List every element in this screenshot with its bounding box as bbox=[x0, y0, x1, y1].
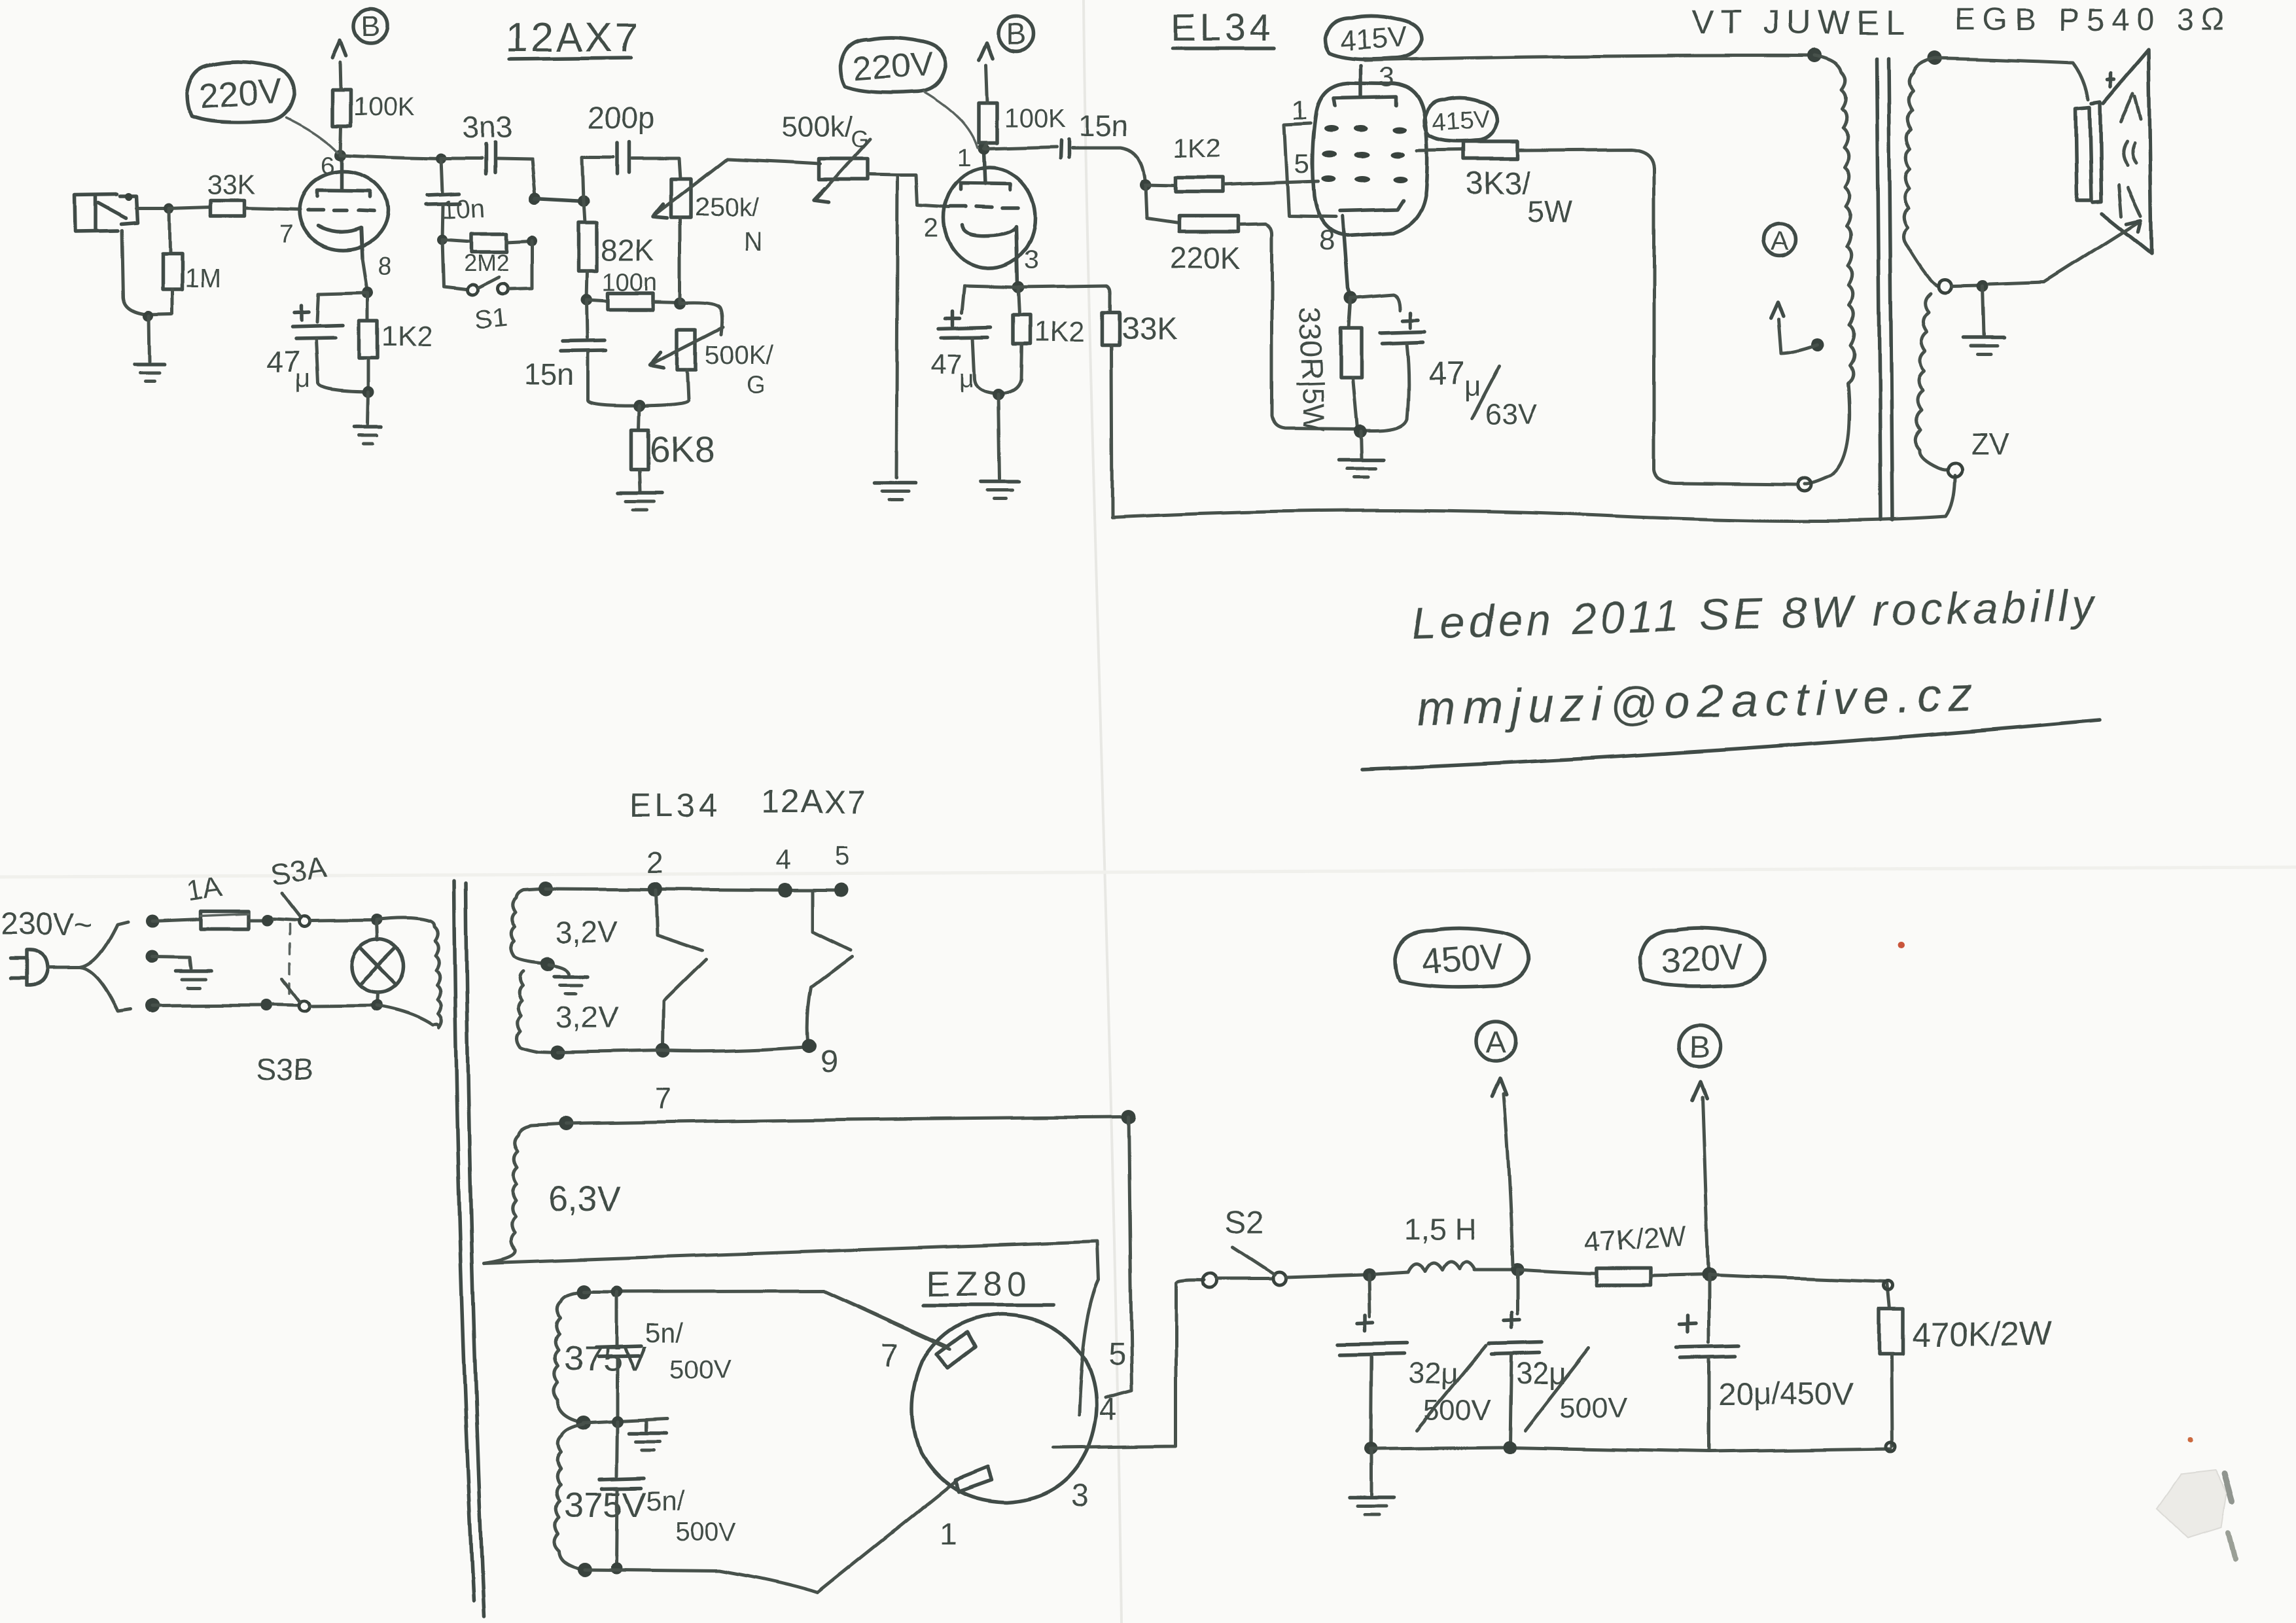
svg-text:5n/: 5n/ bbox=[646, 1486, 685, 1516]
svg-text:500V: 500V bbox=[675, 1518, 737, 1546]
capacitor 47u/63V (EL34 cathode) bbox=[1351, 294, 1537, 431]
EL34 heater filament bbox=[656, 890, 707, 1047]
svg-text:S1: S1 bbox=[474, 304, 508, 336]
voltage balloon 220V (stage 1) bbox=[187, 62, 338, 152]
heater bus top bbox=[546, 889, 841, 890]
capacitor 5n/500V lower bbox=[599, 1421, 737, 1574]
resistor 33K (feedback) bbox=[1018, 286, 1177, 517]
svg-text:500V: 500V bbox=[1560, 1392, 1627, 1424]
switch S2 bbox=[1203, 1205, 1286, 1288]
svg-text:375V: 375V bbox=[564, 1486, 646, 1525]
wire node6 to 3n3 bbox=[340, 153, 446, 164]
winding 375V lower bbox=[554, 1424, 646, 1569]
title EL34 bbox=[1171, 7, 1275, 49]
wire jack sleeve down bbox=[122, 230, 172, 321]
node 6 (plate V1a) bbox=[334, 149, 346, 161]
12AX7 pin 9 node bbox=[802, 1039, 817, 1053]
switch S3B bbox=[256, 979, 377, 1086]
choke 1.5H bbox=[1375, 1212, 1524, 1276]
svg-text:2: 2 bbox=[924, 214, 938, 243]
resistor 3K3/5W (screen) bbox=[1417, 142, 1654, 229]
svg-text:3,2V: 3,2V bbox=[555, 915, 617, 949]
svg-text:200p: 200p bbox=[588, 101, 654, 135]
svg-text:330R|5W: 330R|5W bbox=[1293, 307, 1332, 433]
svg-text:EZ80: EZ80 bbox=[927, 1264, 1032, 1304]
dashed link S3A-S3B bbox=[289, 924, 291, 1003]
OT core bbox=[1877, 58, 1881, 520]
mains terminals bbox=[145, 914, 158, 927]
switch S1 bbox=[442, 240, 532, 336]
heater bus bottom bbox=[557, 1046, 809, 1052]
PT core bbox=[454, 881, 474, 1601]
wire 250K wiper to volume pot bbox=[728, 159, 820, 164]
svg-text:6,3V: 6,3V bbox=[548, 1179, 621, 1219]
svg-text:μ: μ bbox=[296, 365, 311, 393]
EZ80 cathode pin 3 bbox=[1053, 1280, 1204, 1448]
mains plug bbox=[10, 950, 47, 985]
EL34 pin 2 node bbox=[648, 882, 662, 897]
resistor 1M (input load) bbox=[162, 208, 221, 313]
svg-text:2: 2 bbox=[646, 846, 663, 880]
node (3n3 right / 200p left) bbox=[529, 192, 541, 204]
svg-text:450V: 450V bbox=[1420, 936, 1505, 982]
ground (speaker return) bbox=[1964, 286, 2004, 355]
OT secondary lower winding bbox=[1915, 293, 1949, 469]
svg-text:32μ: 32μ bbox=[1408, 1356, 1459, 1390]
capacitor 10n bbox=[425, 158, 486, 245]
svg-text:3n3: 3n3 bbox=[462, 110, 512, 144]
capacitor 100n (box style) bbox=[586, 269, 686, 310]
svg-text:1K2: 1K2 bbox=[381, 320, 433, 352]
resistor 1K2 (V1a cathode) bbox=[359, 293, 433, 398]
svg-text:B: B bbox=[1006, 17, 1027, 51]
ground (V1b cathode) bbox=[981, 395, 1019, 499]
svg-text:320V: 320V bbox=[1660, 936, 1745, 982]
wire screen down to OT bottom bbox=[1654, 169, 1798, 484]
wire to V1b grid bbox=[898, 175, 949, 207]
arrow A (PSU) bbox=[1492, 1079, 1506, 1097]
svg-text:12AX7: 12AX7 bbox=[762, 783, 866, 820]
svg-text:415V: 415V bbox=[1338, 20, 1408, 57]
svg-text:S2: S2 bbox=[1225, 1205, 1263, 1240]
node label A circle (OT) bbox=[1763, 223, 1796, 256]
EL34 cathode node bbox=[1343, 216, 1357, 304]
svg-text:1: 1 bbox=[957, 145, 971, 172]
12AX7 heater filament bbox=[807, 891, 852, 1042]
winding 375V upper bbox=[554, 1292, 646, 1423]
svg-text:7: 7 bbox=[654, 1081, 671, 1115]
ground (V1a cathode) bbox=[354, 392, 381, 444]
svg-text:10n: 10n bbox=[441, 194, 486, 224]
capacitor 5n/500V upper bbox=[596, 1292, 732, 1420]
supply arrow B (stage 1) bbox=[332, 41, 346, 58]
OT primary terminal top bbox=[1807, 48, 1822, 63]
svg-text:47K/2W: 47K/2W bbox=[1583, 1221, 1687, 1258]
resistor 330R/5W bbox=[1293, 298, 1362, 433]
svg-text:4: 4 bbox=[776, 844, 791, 875]
ground (filter) bbox=[1349, 1442, 1394, 1514]
svg-text:3,2V: 3,2V bbox=[556, 1000, 618, 1034]
svg-text:B: B bbox=[1689, 1031, 1710, 1065]
fuse 1A bbox=[152, 870, 262, 929]
svg-text:μ: μ bbox=[1464, 371, 1481, 403]
torn paper + staples bbox=[2157, 1470, 2235, 1559]
arrow A (OT tap) bbox=[1771, 302, 1783, 318]
note underline bbox=[1362, 720, 2099, 770]
svg-text:ZV: ZV bbox=[1971, 427, 2009, 461]
svg-text:220V: 220V bbox=[198, 71, 283, 116]
svg-text:5W: 5W bbox=[1527, 195, 1572, 229]
svg-text:100K: 100K bbox=[353, 92, 415, 121]
svg-text:mmjuzi@o2active.cz: mmjuzi@o2active.cz bbox=[1416, 669, 1979, 736]
pin1-cathode strap bbox=[1284, 123, 1336, 217]
node label B circle (stage 2) bbox=[998, 16, 1034, 52]
pilot lamp bbox=[351, 914, 404, 1011]
svg-text:500K/: 500K/ bbox=[705, 341, 773, 370]
long wire volume pot to ground bbox=[896, 175, 898, 478]
OT secondary tap node bbox=[1938, 279, 1951, 293]
svg-text:N: N bbox=[743, 227, 762, 256]
svg-text:EL34: EL34 bbox=[629, 787, 722, 824]
EZ80 pin 4 lead bbox=[1106, 1117, 1132, 1398]
node label A circle (PSU) bbox=[1476, 1022, 1515, 1061]
resistor 33K (grid stopper) bbox=[169, 169, 300, 216]
arrow secondary to speaker bbox=[2045, 223, 2138, 282]
capacitor 15n (coupling) bbox=[983, 109, 1152, 190]
wire 375V bottom to EZ80 pin1 bbox=[585, 1478, 961, 1593]
resistor 220K (grid leak) bbox=[1146, 185, 1354, 429]
svg-text:47: 47 bbox=[1428, 355, 1465, 392]
svg-text:1K2: 1K2 bbox=[1034, 316, 1085, 348]
red fleck marks bbox=[1898, 942, 1905, 948]
svg-text:VT JUWEL: VT JUWEL bbox=[1691, 4, 1911, 42]
svg-text:2M2: 2M2 bbox=[463, 249, 509, 276]
svg-text:100K: 100K bbox=[1004, 104, 1066, 133]
svg-text:220V: 220V bbox=[853, 45, 935, 88]
svg-text:5n/: 5n/ bbox=[645, 1317, 684, 1347]
wire jack to grid node bbox=[136, 203, 175, 213]
supply arrow B (stage 2) bbox=[979, 43, 993, 60]
svg-text:47: 47 bbox=[930, 349, 963, 381]
resistor 1K2 (V1b cathode) bbox=[993, 287, 1085, 401]
EL34 pin 7 node bbox=[656, 1043, 671, 1058]
resistor 2M2 bbox=[442, 234, 537, 276]
feedback wire to ZV bbox=[1112, 475, 1955, 521]
6.3V bottom wire to EZ80 pin5 bbox=[484, 1241, 1099, 1280]
OT secondary terminal top bbox=[1928, 51, 1942, 65]
node pin1 (plate V1b) bbox=[978, 143, 989, 154]
tube V2 EL34 bbox=[1292, 62, 1428, 257]
ground (heater CT) bbox=[548, 965, 588, 993]
PT primary winding bbox=[431, 921, 442, 1027]
EL34 cathode bottom node + ground bbox=[1339, 425, 1383, 477]
resistor 470K/2W bbox=[1709, 1275, 2052, 1452]
svg-text:15n: 15n bbox=[523, 357, 574, 391]
svg-text:1A: 1A bbox=[185, 870, 225, 907]
svg-text:1K2: 1K2 bbox=[1174, 134, 1220, 163]
svg-text:4: 4 bbox=[1099, 1393, 1117, 1427]
OT primary tap to A bbox=[1811, 338, 1824, 351]
potentiometer 500K/G (tone) bbox=[650, 327, 773, 399]
svg-text:G: G bbox=[746, 371, 766, 399]
svg-text:3: 3 bbox=[1072, 1478, 1089, 1512]
svg-text:EGB P540 3Ω: EGB P540 3Ω bbox=[1955, 3, 2233, 37]
svg-text:S3B: S3B bbox=[256, 1052, 313, 1086]
wire mains lower to S3B bbox=[153, 1005, 262, 1006]
switch S3A bbox=[261, 849, 377, 927]
svg-text:1M: 1M bbox=[185, 264, 221, 293]
svg-text:20μ/450V: 20μ/450V bbox=[1718, 1377, 1853, 1412]
svg-text:3K3/: 3K3/ bbox=[1466, 166, 1530, 201]
svg-text:82K: 82K bbox=[601, 233, 654, 267]
svg-text:B: B bbox=[361, 10, 380, 43]
svg-text:3: 3 bbox=[1379, 62, 1394, 92]
svg-text:100n: 100n bbox=[602, 269, 658, 296]
PT primary wires bbox=[377, 918, 433, 1025]
svg-text:7: 7 bbox=[881, 1339, 898, 1374]
svg-text:7: 7 bbox=[279, 221, 293, 248]
wire plate to OT primary bbox=[1365, 56, 1814, 60]
svg-text:1: 1 bbox=[940, 1517, 957, 1552]
svg-text:63V: 63V bbox=[1485, 399, 1537, 431]
resistor 82K bbox=[578, 201, 654, 306]
svg-text:EL34: EL34 bbox=[1171, 7, 1275, 49]
svg-text:415V: 415V bbox=[1431, 106, 1491, 137]
svg-text:5: 5 bbox=[1108, 1338, 1126, 1372]
svg-text:3: 3 bbox=[1024, 245, 1038, 274]
OT primary terminal bottom bbox=[1798, 478, 1811, 491]
svg-text:33K: 33K bbox=[1122, 312, 1177, 346]
arrow B (PSU) bbox=[1692, 1082, 1706, 1101]
6.3V top wire to EZ80 pin4 bbox=[567, 1117, 1127, 1124]
svg-text:12AX7: 12AX7 bbox=[505, 15, 640, 60]
voltage balloon 220V (stage 2) bbox=[841, 37, 978, 148]
svg-text:1: 1 bbox=[1292, 94, 1307, 125]
capacitor 32u/500V (second) bbox=[1489, 1270, 1627, 1454]
winding 6.3V bbox=[484, 1124, 621, 1263]
capacitor 3n3 bbox=[441, 110, 535, 196]
svg-text:G: G bbox=[851, 125, 869, 152]
svg-text:8: 8 bbox=[378, 253, 392, 281]
wire 500K bottom to node bbox=[633, 370, 688, 412]
node label B circle (PSU) bbox=[1678, 1026, 1720, 1067]
svg-text:15n: 15n bbox=[1078, 109, 1129, 143]
resistor 1K2 (EL34 grid stopper) bbox=[1146, 134, 1318, 192]
wire plug fork bbox=[47, 921, 131, 1011]
wire to speaker plus bbox=[1935, 58, 2088, 99]
svg-text:A: A bbox=[1771, 225, 1789, 256]
OT secondary winding bbox=[1904, 58, 1939, 286]
capacitor 47u (V1a cathode) bbox=[267, 293, 368, 393]
speaker EGB P540 bbox=[2075, 50, 2151, 253]
ground (input) bbox=[134, 316, 164, 381]
capacitor 47u (V1b cathode) bbox=[930, 281, 1024, 394]
wire 100n-node up to 250K bottom bbox=[679, 218, 682, 302]
wire volume pot to ground line bbox=[868, 174, 898, 175]
input jack J1 bbox=[75, 193, 137, 232]
svg-text:5: 5 bbox=[835, 840, 850, 871]
potentiometer 250K/N bbox=[653, 159, 762, 256]
svg-text:A: A bbox=[1486, 1025, 1506, 1059]
svg-text:6: 6 bbox=[321, 152, 334, 180]
svg-text:500V: 500V bbox=[1424, 1395, 1491, 1427]
label EZ80 bbox=[924, 1264, 1053, 1305]
voltage balloon 320V bbox=[1640, 929, 1765, 986]
svg-text:S3A: S3A bbox=[268, 849, 330, 891]
svg-text:5: 5 bbox=[1294, 148, 1309, 179]
filter ground bus bbox=[1371, 1448, 1891, 1452]
svg-text:230V~: 230V~ bbox=[1, 907, 93, 942]
potentiometer 500K/G (volume) bbox=[782, 111, 870, 202]
ground (6K8) bbox=[618, 491, 663, 495]
voltage balloon 415V (screen) bbox=[1424, 98, 1498, 141]
wire S2 to filter node A bbox=[1286, 1275, 1362, 1277]
svg-text:9: 9 bbox=[821, 1044, 838, 1079]
ground (mains) bbox=[152, 957, 211, 988]
voltage balloon 450V bbox=[1396, 929, 1529, 986]
svg-text:33K: 33K bbox=[207, 169, 256, 200]
resistor 47K/2W bbox=[1517, 1221, 1716, 1285]
ground (volume pot) bbox=[875, 481, 915, 485]
resistor 100K (plate V1b) bbox=[979, 65, 1066, 149]
svg-text:8: 8 bbox=[1319, 224, 1335, 257]
resistor 100K (plate V1a) bbox=[332, 62, 415, 155]
title 12AX7 bbox=[505, 15, 640, 60]
resistor 6K8 bbox=[631, 406, 715, 491]
svg-text:1,5 H: 1,5 H bbox=[1404, 1212, 1476, 1246]
svg-text:Leden 2011 SE 8W rockabilly: Leden 2011 SE 8W rockabilly bbox=[1411, 580, 2098, 648]
12AX7 pins 4 and 5 bbox=[778, 883, 792, 897]
capacitor 32u/500V (first) bbox=[1338, 1275, 1491, 1446]
tube V1a 12AX7 first triode bbox=[279, 152, 392, 281]
svg-text:500k/: 500k/ bbox=[782, 111, 853, 143]
svg-text:220K: 220K bbox=[1170, 241, 1241, 275]
svg-text:250k/: 250k/ bbox=[695, 193, 760, 222]
ground (HV centre tap) bbox=[629, 1420, 666, 1450]
wire 375V top to EZ80 pin7 bbox=[584, 1291, 947, 1347]
tube V1b 12AX7 second triode bbox=[924, 152, 1038, 285]
capacitor 20u/450V bbox=[1676, 1275, 1853, 1450]
tube V3 EZ80 bbox=[912, 1314, 1097, 1503]
wire hook node to 500K/G tone pot bbox=[680, 302, 722, 334]
pin 7 pointer bbox=[824, 1291, 950, 1349]
capacitor 200p bbox=[582, 101, 680, 201]
svg-text:6K8: 6K8 bbox=[650, 429, 715, 470]
375V centre tap wire bbox=[584, 1419, 667, 1423]
capacitor 15n (stage1 tone) bbox=[523, 300, 639, 406]
svg-text:μ: μ bbox=[959, 365, 974, 393]
V1a cathode node bbox=[362, 259, 374, 298]
OT primary winding bbox=[1805, 56, 1854, 484]
svg-text:470K/2W: 470K/2W bbox=[1912, 1315, 2052, 1353]
heater winding 3.2V+3.2V bbox=[511, 889, 618, 1052]
svg-text:500V: 500V bbox=[670, 1355, 732, 1384]
wire 3n3-node to 82K-node bbox=[535, 195, 590, 207]
EZ80 pin 5 lead bbox=[1079, 1280, 1099, 1415]
node label B circle (stage 1) bbox=[354, 9, 388, 43]
OT secondary terminal ZV bbox=[1948, 463, 1962, 477]
voltage balloon 415V (plate) bbox=[1324, 16, 1421, 59]
